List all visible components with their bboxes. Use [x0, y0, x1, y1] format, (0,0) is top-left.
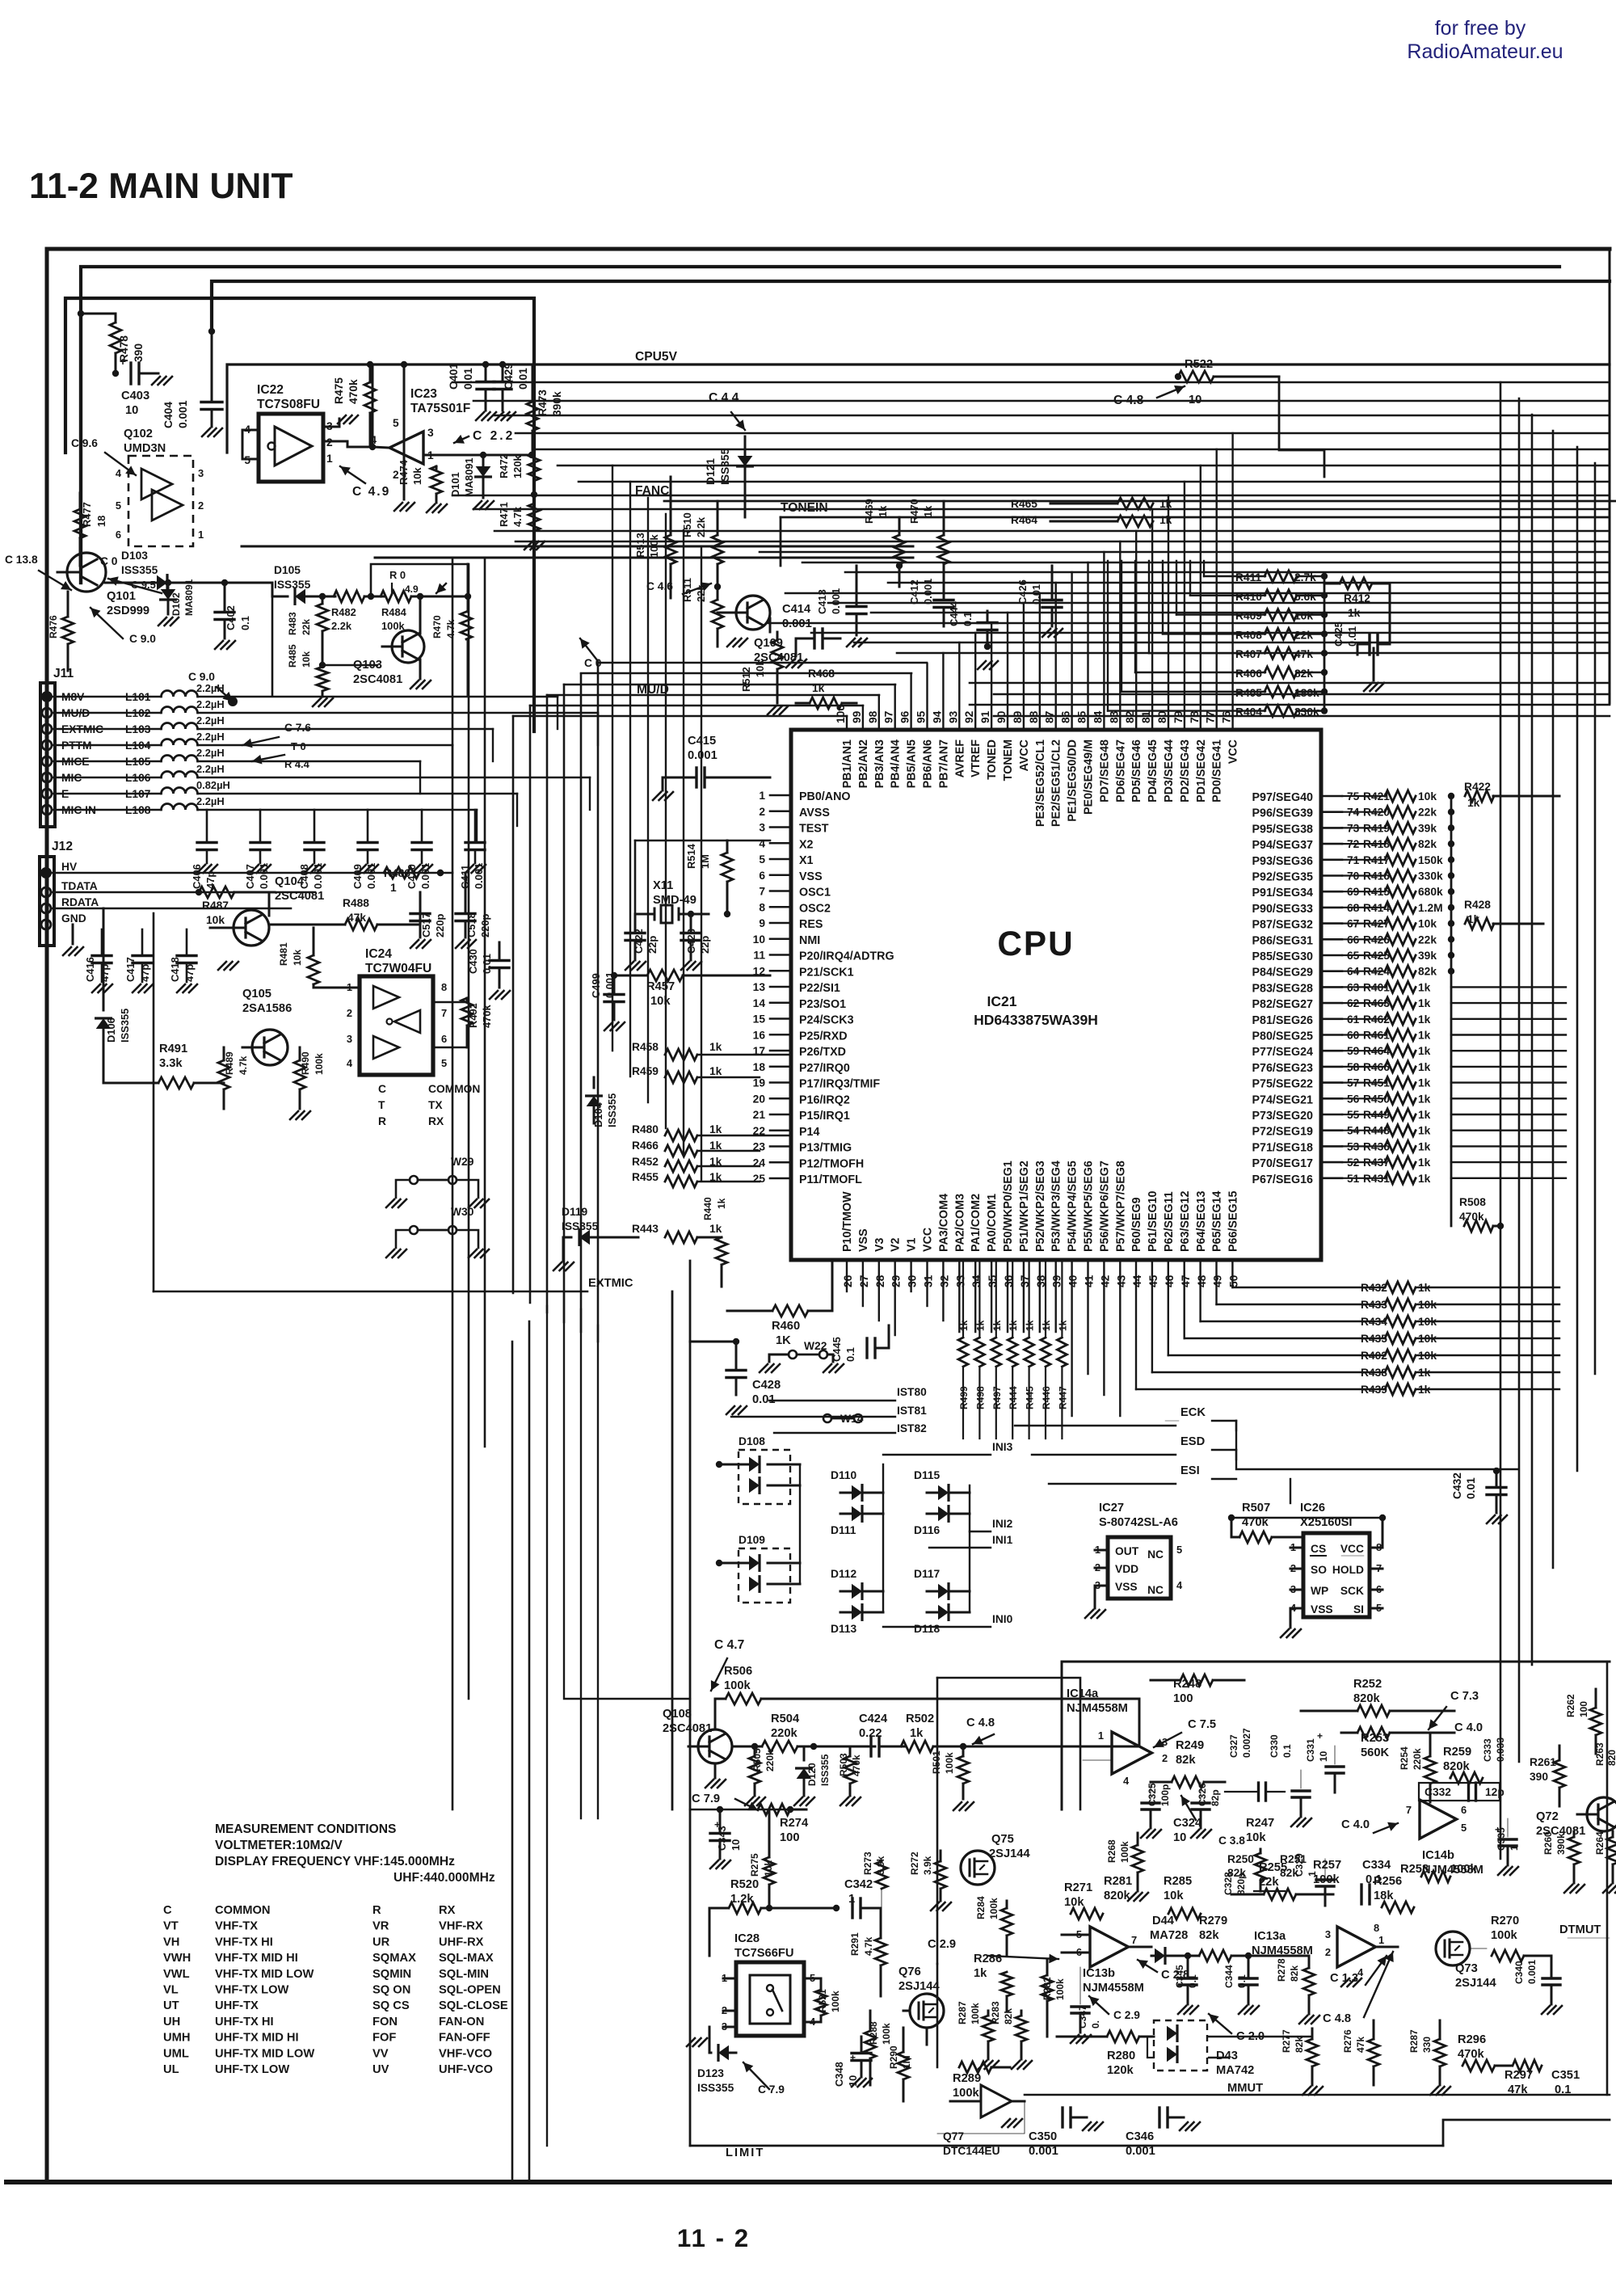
svg-text:HOLD: HOLD [1332, 1564, 1364, 1576]
svg-text:VWL: VWL [163, 1968, 190, 1981]
wire pin1 IC23 row [423, 454, 534, 457]
svg-text:98: 98 [867, 710, 879, 723]
svg-text:PB4/AN4: PB4/AN4 [890, 739, 903, 788]
svg-text:96: 96 [899, 710, 911, 723]
svg-text:29: 29 [890, 1274, 903, 1287]
svg-text:VCC: VCC [1340, 1543, 1364, 1555]
svg-text:C330: C330 [1269, 1734, 1280, 1758]
diode D116 [938, 1506, 949, 1522]
svg-text:VSS: VSS [857, 1228, 870, 1252]
svg-text:Q77: Q77 [943, 2130, 964, 2142]
svg-text:82k: 82k [1003, 2008, 1014, 2024]
svg-text:P22/SI1: P22/SI1 [799, 982, 840, 995]
svg-text:82k: 82k [1294, 2037, 1305, 2053]
svg-text:W30: W30 [451, 1206, 474, 1218]
svg-text:CPU5V: CPU5V [635, 350, 678, 364]
svg-text:P80/SEG25: P80/SEG25 [1252, 1030, 1313, 1043]
svg-text:5: 5 [116, 499, 121, 512]
svg-text:D101: D101 [449, 472, 461, 497]
svg-text:2SJ144: 2SJ144 [898, 1980, 940, 1993]
svg-text:VH: VH [163, 1936, 179, 1948]
svg-text:VOLTMETER:10MΩ/V: VOLTMETER:10MΩ/V [215, 1839, 343, 1852]
svg-text:VHF-TX MID LOW: VHF-TX MID LOW [215, 1968, 314, 1981]
svg-text:Q104: Q104 [275, 875, 305, 888]
svg-text:P96/SEG39: P96/SEG39 [1252, 807, 1313, 820]
svg-text:0.1: 0.1 [962, 612, 974, 626]
svg-text:5: 5 [1461, 1822, 1467, 1834]
svg-text:UMD3N: UMD3N [124, 442, 166, 455]
svg-text:2SJ144: 2SJ144 [989, 1847, 1030, 1860]
svg-text:R487: R487 [202, 899, 229, 912]
svg-text:82k: 82k [1294, 668, 1313, 680]
svg-text:PD5/SEG46: PD5/SEG46 [1130, 739, 1143, 803]
svg-text:92: 92 [963, 710, 975, 723]
svg-text:VHF-VCO: VHF-VCO [439, 2047, 492, 2060]
right vertical bus [1500, 382, 1595, 1859]
svg-text:UMH: UMH [163, 2032, 190, 2045]
svg-text:for free by: for free by [1435, 17, 1526, 40]
svg-text:470k: 470k [1459, 1211, 1484, 1223]
svg-text:1k: 1k [1418, 1061, 1431, 1073]
svg-text:2: 2 [1162, 1752, 1168, 1764]
svg-text:P55/WKP5/SEG6: P55/WKP5/SEG6 [1083, 1161, 1096, 1252]
svg-text:IST80: IST80 [897, 1386, 927, 1398]
svg-text:ECK: ECK [1180, 1406, 1206, 1419]
svg-text:2: 2 [759, 806, 765, 818]
svg-text:R504: R504 [771, 1713, 800, 1725]
svg-text:PD1/SEG42: PD1/SEG42 [1195, 739, 1208, 803]
svg-text:TC7S08FU: TC7S08FU [257, 398, 320, 411]
svg-text:P10/TMOW: P10/TMOW [841, 1191, 854, 1252]
CPU left pins 1-25 [753, 790, 894, 1186]
svg-text:10k: 10k [206, 914, 225, 926]
svg-text:39k: 39k [1418, 822, 1437, 834]
svg-text:C403: C403 [121, 390, 149, 402]
svg-text:P16/IRQ2: P16/IRQ2 [799, 1093, 850, 1106]
right rows lower [970, 682, 1610, 685]
svg-text:D116: D116 [914, 1524, 941, 1536]
diode D113 [852, 1605, 862, 1620]
svg-text:R506: R506 [724, 1665, 752, 1678]
svg-text:0.01: 0.01 [481, 954, 493, 974]
wire stub top-left [81, 313, 116, 315]
svg-text:0.01: 0.01 [517, 368, 529, 390]
svg-text:R484: R484 [381, 606, 407, 618]
svg-text:8: 8 [441, 981, 447, 993]
svg-text:43: 43 [1115, 1274, 1127, 1287]
svg-text:R260: R260 [1542, 1831, 1554, 1855]
svg-text:+: + [120, 356, 126, 368]
wires to Q108 left [580, 1309, 582, 1818]
svg-text:82k: 82k [1199, 1929, 1219, 1942]
svg-text:C: C [378, 1083, 386, 1095]
svg-text:R276: R276 [1342, 2029, 1353, 2053]
svg-text:1: 1 [326, 453, 333, 465]
svg-text:PA3/COM4: PA3/COM4 [937, 1194, 950, 1252]
svg-text:C 4.8: C 4.8 [1323, 2012, 1351, 2025]
svg-text:SO: SO [1311, 1564, 1327, 1576]
svg-text:0.01: 0.01 [462, 368, 474, 390]
svg-text:P75/SEG22: P75/SEG22 [1252, 1078, 1313, 1091]
svg-text:VTREF: VTREF [970, 739, 983, 777]
svg-text:C 4.0: C 4.0 [1454, 1721, 1483, 1734]
svg-text:PB2/AN2: PB2/AN2 [857, 739, 870, 788]
svg-text:45: 45 [1147, 1274, 1159, 1287]
svg-text:R452: R452 [632, 1156, 659, 1168]
svg-text:2: 2 [1325, 1946, 1331, 1958]
matrix verticals [882, 1464, 884, 1612]
svg-text:470k: 470k [481, 1004, 493, 1028]
CPU top pin stubs [847, 433, 1233, 730]
svg-text:1k: 1k [709, 1065, 722, 1077]
svg-text:1k: 1k [1418, 1109, 1431, 1121]
transistor Q76 2SJ144 [910, 1994, 944, 2028]
svg-text:FON: FON [372, 2016, 398, 2028]
svg-text:C499: C499 [590, 973, 602, 998]
svg-text:41: 41 [1084, 1274, 1096, 1287]
svg-text:10k: 10k [650, 995, 671, 1008]
svg-text:UH: UH [163, 2016, 180, 2028]
svg-text:TC7W04FU: TC7W04FU [365, 962, 431, 975]
svg-text:R473: R473 [537, 390, 549, 416]
svg-text:180k: 180k [1294, 687, 1319, 699]
svg-text:R522: R522 [1185, 358, 1213, 371]
svg-text:C 7.9: C 7.9 [758, 2083, 785, 2096]
frame rail 3 [212, 281, 1610, 331]
wire MMUT net [1025, 2094, 1610, 2096]
vertical bus mid drop [612, 466, 701, 1180]
svg-text:0.001: 0.001 [688, 749, 718, 762]
svg-text:R252: R252 [1353, 1678, 1382, 1691]
svg-text:33: 33 [954, 1274, 966, 1287]
svg-text:R287: R287 [957, 2001, 968, 2024]
svg-text:RES: RES [799, 918, 823, 931]
svg-text:2.2µH: 2.2µH [196, 763, 225, 775]
svg-text:0.001: 0.001 [177, 400, 189, 428]
svg-text:8: 8 [1374, 1922, 1379, 1934]
svg-text:R274: R274 [780, 1817, 809, 1830]
svg-text:100k: 100k [830, 1991, 841, 2012]
ladder collector vertical [1450, 796, 1453, 1226]
svg-text:SQL-OPEN: SQL-OPEN [439, 1984, 501, 1997]
svg-text:C416: C416 [84, 957, 96, 982]
legend table [163, 1904, 508, 2076]
svg-text:10k: 10k [1418, 918, 1437, 930]
resistor R478 390 [110, 322, 121, 353]
svg-text:VV: VV [372, 2047, 389, 2060]
svg-text:82k: 82k [1289, 1965, 1300, 1982]
svg-text:4: 4 [759, 837, 765, 849]
svg-text:39k: 39k [1418, 950, 1437, 962]
svg-text:R408: R408 [1235, 629, 1262, 641]
inductors L101-L108 [52, 682, 598, 842]
svg-text:R428: R428 [1464, 899, 1491, 911]
svg-text:3: 3 [427, 427, 434, 439]
svg-text:Q72: Q72 [1536, 1810, 1559, 1823]
svg-text:R262: R262 [1565, 1694, 1576, 1717]
svg-text:P14: P14 [799, 1126, 819, 1139]
RDATA wire [52, 908, 291, 910]
svg-text:C324: C324 [1173, 1817, 1202, 1830]
svg-text:100k: 100k [1119, 1841, 1130, 1863]
svg-text:P24/SCK3: P24/SCK3 [799, 1014, 854, 1027]
svg-text:TEST: TEST [799, 823, 829, 836]
svg-text:R443: R443 [632, 1223, 659, 1235]
op-amp IC14b NJM4558M [1420, 1800, 1457, 1839]
svg-text:100k: 100k [944, 1752, 955, 1774]
svg-text:R290: R290 [888, 2045, 899, 2069]
svg-text:C332: C332 [1425, 1786, 1451, 1798]
svg-text:R263: R263 [1594, 1742, 1605, 1766]
svg-text:PE1/SEG50/DD: PE1/SEG50/DD [1067, 739, 1079, 822]
svg-text:R: R [378, 1115, 386, 1127]
svg-text:19: 19 [753, 1077, 766, 1089]
svg-text:UL: UL [163, 2063, 179, 2076]
svg-text:VWH: VWH [163, 1952, 191, 1965]
svg-text:93: 93 [947, 710, 959, 723]
svg-text:C 7.9: C 7.9 [692, 1793, 720, 1805]
svg-text:UHF-TX MID HI: UHF-TX MID HI [215, 2032, 299, 2045]
svg-text:47: 47 [1180, 1274, 1192, 1287]
svg-text:3: 3 [347, 1033, 352, 1045]
svg-text:C518: C518 [465, 912, 478, 937]
svg-text:R469: R469 [863, 499, 875, 524]
svg-text:48: 48 [1196, 1274, 1208, 1287]
sub-block bottom rails [242, 546, 913, 548]
svg-text:0.001: 0.001 [1526, 1960, 1538, 1984]
svg-text:Q103: Q103 [353, 659, 382, 672]
svg-text:C351: C351 [1551, 2069, 1580, 2082]
svg-text:D103: D103 [121, 550, 148, 562]
svg-text:1: 1 [759, 790, 765, 802]
svg-text:470k: 470k [347, 379, 360, 404]
svg-text:C 4.6: C 4.6 [646, 580, 673, 592]
svg-text:R508: R508 [1459, 1196, 1486, 1208]
svg-text:680k: 680k [1418, 886, 1443, 898]
svg-text:2SJ144: 2SJ144 [1455, 1977, 1496, 1990]
svg-text:C328: C328 [1223, 1872, 1234, 1895]
svg-text:R287: R287 [1408, 2029, 1420, 2053]
svg-text:22p: 22p [699, 936, 711, 954]
svg-text:22k: 22k [1418, 933, 1437, 946]
svg-text:C346: C346 [1126, 2130, 1154, 2143]
svg-text:T: T [378, 1099, 385, 1111]
svg-text:FAN-OFF: FAN-OFF [439, 2032, 490, 2045]
svg-text:P77/SEG24: P77/SEG24 [1252, 1046, 1313, 1059]
svg-text:100: 100 [780, 1831, 800, 1844]
svg-text:R512: R512 [740, 667, 752, 692]
svg-text:P50/WKP0/SEG1: P50/WKP0/SEG1 [1002, 1161, 1015, 1252]
svg-text:10: 10 [125, 404, 138, 417]
svg-text:2.2k: 2.2k [695, 516, 707, 537]
svg-text:OSC1: OSC1 [799, 887, 831, 899]
svg-text:GND: GND [61, 912, 86, 925]
svg-text:82k: 82k [1418, 838, 1437, 850]
svg-text:IC26: IC26 [1300, 1502, 1325, 1515]
svg-text:INI2: INI2 [992, 1518, 1013, 1530]
svg-text:1k: 1k [877, 505, 889, 517]
svg-text:C344: C344 [1223, 1965, 1235, 1988]
svg-text:C348: C348 [833, 2062, 845, 2087]
svg-text:P26/TXD: P26/TXD [799, 1046, 846, 1059]
svg-text:P21/SCK1: P21/SCK1 [799, 966, 854, 979]
svg-text:R250: R250 [1227, 1853, 1254, 1865]
svg-text:X2: X2 [799, 838, 814, 851]
svg-text:10: 10 [1173, 1831, 1186, 1844]
svg-text:11: 11 [753, 950, 765, 962]
svg-text:RX: RX [439, 1904, 456, 1917]
transistor Q104 2SC4081 [234, 910, 269, 946]
transistor Q73 2SJ144 [1436, 1932, 1470, 1965]
svg-text:1k: 1k [716, 1198, 727, 1209]
transistor Q101 2SD999 [67, 553, 106, 592]
svg-text:V2: V2 [890, 1237, 903, 1252]
svg-text:5: 5 [1176, 1544, 1182, 1556]
svg-text:7: 7 [1131, 1934, 1137, 1946]
svg-text:NC: NC [1147, 1548, 1164, 1561]
svg-text:18: 18 [753, 1061, 766, 1073]
svg-text:1k: 1k [1418, 1173, 1431, 1185]
svg-text:100k: 100k [988, 1898, 999, 1919]
svg-text:MEASUREMENT CONDITIONS: MEASUREMENT CONDITIONS [215, 1822, 396, 1836]
svg-text:PE2/SEG51/CL2: PE2/SEG51/CL2 [1050, 739, 1063, 827]
CPU right pins 75-51 [1252, 790, 1359, 1186]
svg-text:Q108: Q108 [663, 1708, 692, 1721]
TDATA wire [52, 891, 315, 894]
svg-text:470k: 470k [1458, 2048, 1485, 2061]
svg-text:SMD-49: SMD-49 [653, 894, 696, 907]
svg-text:PE0/SEG49/M: PE0/SEG49/M [1083, 739, 1096, 815]
svg-text:ISS355: ISS355 [819, 1754, 831, 1786]
svg-text:C 9.0: C 9.0 [188, 671, 215, 683]
svg-text:10: 10 [1318, 1750, 1329, 1762]
svg-text:PA0/COM1: PA0/COM1 [986, 1194, 999, 1252]
CPU5V rail (y=451) [227, 364, 1610, 453]
svg-text:P56/WKP6/SEG7: P56/WKP6/SEG7 [1098, 1161, 1111, 1252]
svg-text:C 2.8: C 2.8 [1161, 1969, 1189, 1982]
svg-text:50: 50 [1228, 1274, 1240, 1287]
svg-text:R 4.4: R 4.4 [284, 758, 310, 770]
svg-text:6: 6 [1461, 1804, 1467, 1816]
svg-text:P62/SEG11: P62/SEG11 [1163, 1191, 1176, 1252]
svg-text:Q105: Q105 [242, 988, 271, 1001]
svg-text:P86/SEG31: P86/SEG31 [1252, 934, 1313, 947]
svg-text:2.2µH: 2.2µH [196, 714, 225, 727]
svg-text:10k: 10k [1418, 790, 1437, 803]
svg-text:1k: 1k [1418, 1156, 1431, 1169]
svg-text:C347: C347 [1077, 2005, 1088, 2028]
svg-text:2.2µH: 2.2µH [196, 795, 225, 807]
diode D111 [852, 1506, 862, 1522]
transistor Q108 2SC4081 [698, 1729, 732, 1763]
svg-text:2SC4081: 2SC4081 [663, 1722, 712, 1735]
svg-text:D123: D123 [697, 2067, 724, 2079]
svg-text:P60/SEG9: P60/SEG9 [1130, 1197, 1143, 1252]
svg-text:PA1/COM2: PA1/COM2 [970, 1194, 983, 1252]
svg-text:C342: C342 [844, 1878, 873, 1891]
svg-text:PE3/SEG52/CL1: PE3/SEG52/CL1 [1034, 739, 1047, 827]
HV wire [52, 872, 452, 874]
svg-text:R259: R259 [1443, 1746, 1471, 1759]
svg-text:10k: 10k [1064, 1896, 1084, 1909]
svg-text:NJM4558M: NJM4558M [1067, 1702, 1128, 1715]
capacitor C403 (electrolytic 10) [112, 370, 119, 377]
svg-text:P83/SEG28: P83/SEG28 [1252, 982, 1313, 995]
svg-text:IC22: IC22 [257, 383, 284, 397]
svg-text:P65/SEG14: P65/SEG14 [1211, 1190, 1224, 1252]
svg-text:P27/IRQ0: P27/IRQ0 [799, 1062, 850, 1075]
svg-text:P13/TMIG: P13/TMIG [799, 1142, 852, 1155]
svg-text:22k: 22k [1418, 807, 1437, 819]
svg-text:P54/WKP4/SEG5: P54/WKP4/SEG5 [1067, 1161, 1079, 1252]
svg-text:C350: C350 [1029, 2130, 1057, 2143]
svg-text:R480: R480 [632, 1123, 659, 1135]
svg-text:C417: C417 [124, 957, 137, 982]
svg-text:SCK: SCK [1340, 1585, 1364, 1597]
svg-text:220p: 220p [434, 913, 446, 937]
svg-text:1k: 1k [1418, 1030, 1431, 1042]
svg-text:560K: 560K [1361, 1746, 1390, 1759]
svg-text:1k: 1k [709, 1140, 722, 1152]
svg-text:PD7/SEG48: PD7/SEG48 [1098, 739, 1111, 803]
svg-text:R280: R280 [1107, 2050, 1135, 2062]
svg-text:R291: R291 [849, 1932, 861, 1956]
svg-text:9: 9 [759, 917, 765, 929]
svg-text:4.7k: 4.7k [445, 619, 457, 638]
wire R522 corner [1279, 377, 1324, 477]
svg-text:P51/WKP1/SEG2: P51/WKP1/SEG2 [1018, 1161, 1031, 1252]
svg-text:2.2µH: 2.2µH [196, 698, 225, 710]
svg-text:NJM4558M: NJM4558M [1083, 1982, 1144, 1995]
svg-text:ISS355: ISS355 [697, 2082, 734, 2094]
svg-text:NC: NC [1147, 1584, 1164, 1596]
svg-text:SQMIN: SQMIN [372, 1968, 411, 1981]
svg-text:C402: C402 [225, 605, 237, 630]
svg-text:RDATA: RDATA [61, 896, 99, 908]
svg-text:D115: D115 [914, 1469, 941, 1481]
EXTMIC block wires [671, 1291, 674, 1809]
svg-text:1K: 1K [776, 1334, 791, 1347]
svg-text:32: 32 [938, 1274, 950, 1287]
svg-text:IC14a: IC14a [1067, 1687, 1099, 1700]
svg-text:10k: 10k [292, 950, 303, 966]
svg-text:R254: R254 [1399, 1746, 1410, 1770]
analog section frame [1062, 1661, 1610, 1663]
svg-text:C445: C445 [831, 1337, 843, 1362]
svg-text:P12/TMOFH: P12/TMOFH [799, 1157, 864, 1170]
svg-text:RadioAmateur.eu: RadioAmateur.eu [1407, 40, 1563, 63]
svg-text:R: R [372, 1904, 381, 1917]
svg-text:94: 94 [931, 710, 943, 723]
svg-text:R459: R459 [632, 1065, 659, 1077]
svg-text:R520: R520 [730, 1878, 759, 1891]
svg-text:P93/SEG36: P93/SEG36 [1252, 855, 1313, 868]
svg-text:Q101: Q101 [107, 590, 136, 603]
svg-text:R275: R275 [749, 1853, 760, 1877]
svg-text:P70/SEG17: P70/SEG17 [1252, 1157, 1313, 1170]
svg-text:MA742: MA742 [1216, 2064, 1254, 2077]
svg-text:C415: C415 [688, 735, 716, 748]
svg-text:10k: 10k [301, 651, 312, 668]
svg-text:12p: 12p [1485, 1786, 1504, 1798]
svg-text:IC21: IC21 [987, 993, 1017, 1009]
svg-text:7: 7 [441, 1007, 447, 1019]
svg-text:V3: V3 [873, 1237, 886, 1252]
transistor Q109 2SC4081 [736, 596, 770, 630]
svg-text:2SC4081: 2SC4081 [353, 673, 402, 686]
svg-text:22k: 22k [1259, 1876, 1279, 1889]
svg-text:2SC4081: 2SC4081 [275, 890, 324, 903]
